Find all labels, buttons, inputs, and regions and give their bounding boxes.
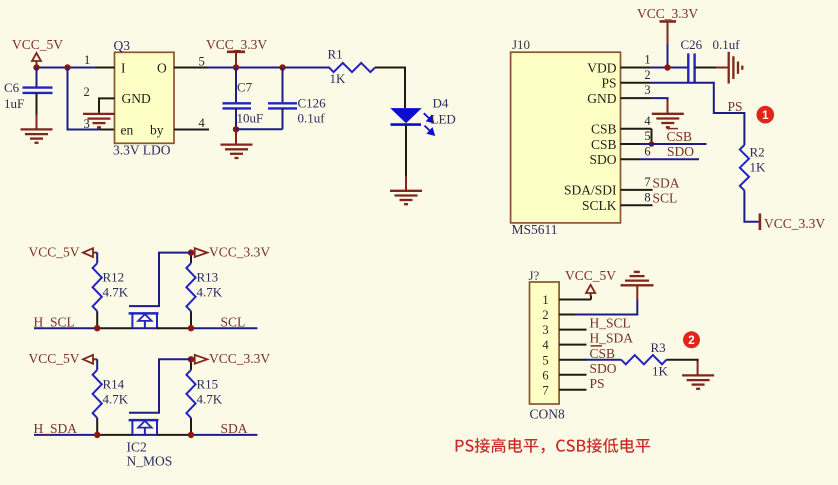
svg-text:7: 7 [644, 175, 650, 189]
svg-text:0.1uf: 0.1uf [298, 111, 326, 126]
power port VCC_3.3V (SCL row) [191, 245, 270, 260]
wire C126 to C7 [236, 128, 283, 130]
power port VCC_5V (H_SCL row) [29, 245, 98, 260]
svg-text:PS: PS [590, 376, 605, 391]
svg-text:VCC_3.3V: VCC_3.3V [209, 351, 270, 366]
svg-text:C26: C26 [681, 37, 703, 52]
svg-text:CSB: CSB [590, 346, 616, 361]
svg-text:SDA/SDI: SDA/SDI [564, 183, 617, 198]
callout badge 2 [683, 331, 700, 348]
power port VCC_5V (J?) [565, 268, 616, 297]
junction [188, 249, 194, 255]
svg-text:2: 2 [688, 335, 694, 347]
power port VCC_5V (H_SDA row) [29, 351, 98, 366]
junction [233, 126, 239, 132]
svg-text:1K: 1K [652, 363, 669, 378]
svg-text:H_SDA: H_SDA [34, 421, 78, 436]
svg-text:4.7K: 4.7K [197, 285, 223, 300]
wire C26 to ground [695, 67, 716, 69]
svg-text:1: 1 [84, 53, 90, 67]
svg-text:J?: J? [529, 268, 540, 283]
capacitor C26 [681, 37, 741, 82]
ground pin2 [83, 114, 115, 127]
resistor R1 [329, 63, 375, 72]
svg-text:IC2: IC2 [127, 439, 147, 454]
svg-text:SDA: SDA [653, 175, 680, 190]
transistor mosfet (H_SDA/SDA) [129, 359, 191, 435]
wire VCC to C6 [36, 68, 38, 87]
svg-text:2: 2 [542, 308, 548, 322]
resistor R13 [190, 253, 192, 264]
svg-text:GND: GND [122, 91, 151, 106]
svg-text:5: 5 [199, 54, 205, 68]
power port VCC_3.3V right [760, 214, 825, 231]
svg-text:6: 6 [644, 144, 650, 158]
svg-text:4: 4 [644, 114, 651, 128]
svg-text:VDD: VDD [587, 60, 616, 75]
svg-text:SDA: SDA [221, 421, 248, 436]
capacitor C126 [282, 68, 284, 103]
svg-text:PS: PS [728, 99, 743, 114]
svg-text:H_SCL: H_SCL [590, 316, 631, 331]
wire main 5V rail [37, 67, 115, 69]
regulator U1 Q3 box [115, 52, 175, 143]
svg-text:2: 2 [644, 68, 650, 82]
wire R1 to LED [375, 68, 405, 109]
svg-text:CSB: CSB [591, 137, 617, 152]
junction [188, 325, 194, 331]
svg-text:VCC_3.3V: VCC_3.3V [209, 245, 270, 260]
wire GND pin3 [651, 98, 668, 101]
pin4 stub to pin5 [621, 128, 652, 130]
svg-text:N_MOS: N_MOS [127, 453, 173, 468]
wire SCL [191, 327, 257, 329]
svg-text:VCC_5V: VCC_5V [565, 268, 616, 283]
svg-text:8: 8 [644, 190, 650, 204]
wire 3.3V rail [208, 67, 330, 69]
junction [64, 64, 70, 70]
wire LED to ground [405, 125, 407, 176]
svg-text:C6: C6 [4, 80, 20, 95]
svg-text:O: O [157, 61, 167, 76]
svg-text:SDO: SDO [589, 152, 616, 167]
svg-text:VCC_3.3V: VCC_3.3V [764, 216, 825, 231]
junction [188, 356, 194, 362]
svg-text:CON8: CON8 [530, 407, 566, 422]
wire R2 to VCC [744, 190, 758, 221]
ground inverted (J? pin2) [621, 272, 654, 285]
svg-text:MS5611: MS5611 [512, 222, 558, 237]
ground D4 [390, 191, 422, 204]
svg-text:4.7K: 4.7K [103, 285, 129, 300]
wire pin2 to ground [559, 314, 575, 316]
svg-text:CSB: CSB [591, 122, 617, 137]
power port VCC_3.3V (SDA row) [191, 351, 270, 366]
svg-text:4: 4 [199, 116, 206, 130]
svg-text:4.7K: 4.7K [197, 391, 223, 406]
svg-text:D4: D4 [433, 96, 449, 111]
wire to en pin [68, 68, 103, 130]
svg-text:R12: R12 [103, 270, 125, 285]
ground R3 [682, 375, 714, 388]
transistor mosfet (H_SCL/SCL) [129, 253, 191, 329]
capacitor C7 [235, 68, 237, 103]
callout badge 1 [757, 106, 775, 124]
wire CSB pin5 [621, 143, 641, 145]
pin7 stub [621, 189, 653, 191]
svg-text:1: 1 [542, 293, 548, 307]
svg-text:VCC_5V: VCC_5V [29, 351, 80, 366]
resistor R2 [740, 145, 749, 190]
svg-text:en: en [121, 123, 134, 138]
power port VCC_5V [12, 37, 63, 65]
resistor R15 [190, 359, 192, 370]
junction [188, 432, 194, 438]
svg-text:R14: R14 [103, 376, 125, 391]
svg-text:1K: 1K [330, 71, 347, 86]
power port VCC_3.3V top [637, 6, 698, 45]
svg-text:1K: 1K [750, 160, 767, 175]
power port VCC_3.3V [206, 37, 267, 68]
svg-text:4.7K: 4.7K [103, 391, 129, 406]
capacitor C6 [4, 80, 53, 111]
svg-text:10uF: 10uF [237, 111, 264, 126]
svg-text:7: 7 [542, 383, 548, 397]
junction [279, 64, 285, 70]
svg-text:J10: J10 [512, 37, 530, 52]
ground C7 [221, 145, 253, 158]
wire SDA [191, 434, 257, 436]
svg-text:4: 4 [542, 338, 549, 352]
svg-text:2: 2 [84, 85, 90, 99]
resistor R3 [621, 355, 666, 364]
pin8 stub [621, 204, 653, 206]
wire C6 to ground [36, 93, 38, 115]
wire PS route [651, 83, 745, 145]
svg-text:R13: R13 [197, 270, 219, 285]
svg-text:H_SCL: H_SCL [34, 315, 75, 330]
svg-text:SCLK: SCLK [582, 198, 617, 213]
svg-text:R2: R2 [750, 145, 765, 160]
svg-text:5: 5 [542, 353, 548, 367]
resistor R12 [96, 253, 98, 264]
svg-text:0.1uf: 0.1uf [713, 37, 741, 52]
svg-text:3: 3 [84, 117, 90, 131]
wire H_SDA [34, 434, 98, 436]
svg-text:by: by [150, 123, 164, 138]
svg-text:3: 3 [542, 323, 548, 337]
svg-text:VCC_3.3V: VCC_3.3V [637, 6, 698, 21]
svg-text:6: 6 [542, 368, 548, 382]
svg-text:R3: R3 [651, 340, 666, 355]
svg-text:SDO: SDO [667, 144, 694, 159]
junction [649, 141, 655, 147]
svg-text:LED: LED [431, 112, 456, 127]
svg-text:3.3V LDO: 3.3V LDO [113, 143, 171, 158]
junction [94, 432, 100, 438]
svg-text:SDO: SDO [590, 361, 617, 376]
wire R3 to ground [667, 360, 698, 362]
svg-text:C7: C7 [237, 80, 253, 95]
ground sideways [729, 52, 743, 84]
junction [233, 64, 239, 70]
svg-text:1: 1 [644, 53, 650, 67]
junction [94, 325, 100, 331]
connector J10 box [511, 52, 621, 223]
svg-text:I: I [121, 61, 126, 76]
svg-text:H_SDA: H_SDA [590, 331, 634, 346]
svg-text:PS: PS [601, 76, 616, 91]
svg-text:R1: R1 [328, 47, 343, 62]
svg-text:5: 5 [644, 129, 650, 143]
junction [664, 64, 670, 70]
svg-text:R15: R15 [197, 376, 219, 391]
svg-text:1uF: 1uF [4, 96, 24, 111]
svg-text:GND: GND [587, 91, 616, 106]
resistor R14 [96, 359, 98, 370]
wire pin5 to R3 [559, 359, 586, 361]
svg-text:VCC_5V: VCC_5V [12, 37, 63, 52]
wire pin1 to VCC_5V [559, 299, 591, 301]
svg-text:SCL: SCL [221, 315, 246, 330]
diode D4 LED [391, 96, 456, 135]
ground C6 [21, 129, 53, 142]
svg-text:3: 3 [644, 83, 650, 97]
svg-text:VCC_3.3V: VCC_3.3V [206, 37, 267, 52]
note PS high CSB low (chinese) [456, 438, 651, 454]
junction [33, 64, 39, 70]
wire VCC to pin1 [667, 44, 669, 68]
ground J10 [652, 114, 684, 127]
svg-text:1: 1 [762, 110, 769, 122]
svg-text:C126: C126 [298, 96, 327, 111]
svg-text:SCL: SCL [653, 190, 678, 205]
svg-text:CSB: CSB [667, 129, 693, 144]
connector J? box [530, 282, 560, 404]
wire SDO pin6 [621, 158, 641, 160]
svg-text:VCC_5V: VCC_5V [29, 245, 80, 260]
wire H_SCL [34, 327, 98, 329]
svg-text:Q3: Q3 [114, 38, 131, 53]
